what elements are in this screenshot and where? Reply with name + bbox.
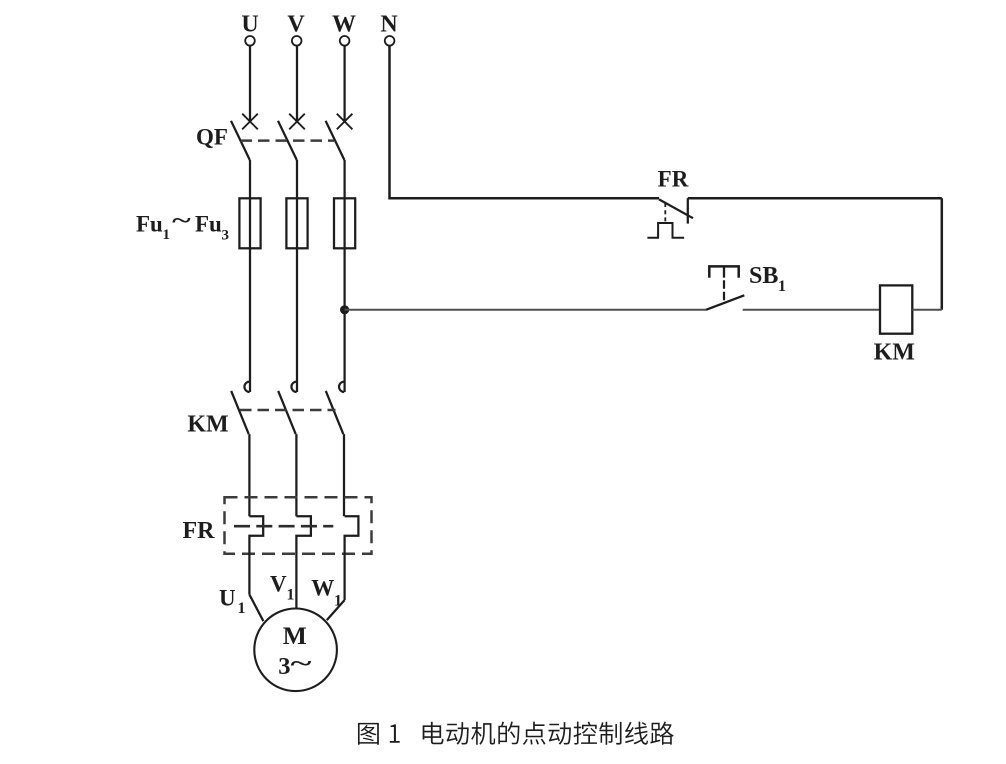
wire: KM pole 3 to FR heater 3 <box>343 434 345 516</box>
terminal U <box>245 36 255 46</box>
KM main contact pole 3 blade <box>326 391 344 434</box>
caption: 图 1 电动机的点动控制线路 <box>358 722 674 745</box>
KM main contact pole 2 terminal arc <box>291 382 296 392</box>
terminal W <box>340 36 350 46</box>
motor terminal label U1 <box>219 586 246 618</box>
label SB1 <box>749 263 786 295</box>
svg-text:~: ~ <box>291 651 312 676</box>
wire: KM pole 1 to FR heater 1 <box>248 434 250 516</box>
FR heater element 2 <box>296 516 311 608</box>
svg-text:KM: KM <box>874 340 915 366</box>
thermal relay FR heater box (dashed) <box>225 497 372 554</box>
KM main contact pole 1 terminal arc <box>244 382 249 392</box>
KM main contact pole 3 terminal arc <box>339 382 344 392</box>
wire: junction to SB1 <box>345 309 706 311</box>
fuse FU3 <box>334 198 355 248</box>
circuit breaker QF pole 2 blade <box>278 121 297 160</box>
svg-text:SB: SB <box>749 263 778 289</box>
svg-text:1: 1 <box>287 587 295 604</box>
svg-text:3: 3 <box>222 227 230 243</box>
fuse FU2 <box>286 198 307 248</box>
wire: QF pole 2 to KM contact pole 2 <box>296 160 298 392</box>
wire: U terminal to QF pole 1 <box>249 46 251 122</box>
svg-text:V: V <box>270 572 287 597</box>
svg-text:1: 1 <box>334 593 342 610</box>
SB1 actuator stem <box>723 266 725 277</box>
push button SB1 contact blade <box>706 295 744 310</box>
svg-text:U: U <box>241 12 258 38</box>
KM main contact pole 2 blade <box>278 391 296 434</box>
svg-text:FR: FR <box>183 518 216 544</box>
KM main contact pole 1 blade <box>231 391 249 434</box>
svg-text:M: M <box>283 621 307 650</box>
KM contacts linkage (dashed) <box>240 409 336 412</box>
FR contact fixed terminal stub <box>687 198 689 223</box>
motor label 3~ <box>278 651 311 680</box>
svg-text:QF: QF <box>196 125 228 150</box>
FR thermal actuator <box>647 223 684 238</box>
svg-text:W: W <box>332 12 356 38</box>
wire: heater 1 to motor (diagonal) <box>249 595 263 622</box>
svg-text:V: V <box>287 12 305 38</box>
svg-text:1: 1 <box>778 278 786 295</box>
node: junction on W phase <box>340 305 349 314</box>
svg-text:W: W <box>311 576 334 601</box>
svg-text:Fu: Fu <box>136 211 163 236</box>
svg-text:1: 1 <box>238 600 246 617</box>
motor terminal label W1 <box>311 576 342 610</box>
wire: SB1 to KM coil <box>743 309 880 311</box>
wire: right riser down to KM coil <box>941 198 944 310</box>
FR heater element 3 <box>345 516 359 600</box>
SB1 dashed link <box>723 280 725 304</box>
svg-text:3: 3 <box>278 653 290 680</box>
FR heater element 1 <box>249 516 263 594</box>
circuit breaker QF pole 2 contact cross <box>289 114 305 130</box>
circuit breaker QF pole 3 blade <box>326 121 345 160</box>
circuit breaker QF linkage (dashed) <box>241 139 335 142</box>
circuit breaker QF pole 3 contact cross <box>337 114 353 130</box>
circuit breaker QF pole 1 contact cross <box>242 114 258 130</box>
svg-text:1: 1 <box>163 227 171 243</box>
wire: W terminal to QF pole 3 <box>343 46 345 122</box>
FR heaters linkage (dashed) <box>234 525 333 528</box>
wire: KM pole 2 to FR heater 2 <box>295 434 297 516</box>
wire: QF pole 1 to KM contact pole 1 <box>249 160 251 392</box>
svg-text:Fu: Fu <box>195 211 222 236</box>
motor M circle <box>254 609 337 692</box>
wire: FR contact to right riser <box>688 197 942 200</box>
wire: N terminal down and right to FR contact <box>390 46 660 198</box>
wire: QF pole 3 to KM contact pole 3 <box>343 160 345 392</box>
terminal V <box>292 36 302 46</box>
terminal N <box>385 36 395 46</box>
svg-text:~: ~ <box>172 208 191 233</box>
circuit breaker QF pole 1 blade <box>231 121 250 160</box>
fuse FU1 <box>239 198 260 248</box>
FR contact dashed link <box>664 203 666 223</box>
svg-text:FR: FR <box>658 166 689 191</box>
contactor coil KM <box>880 285 912 333</box>
svg-text:U: U <box>219 586 236 611</box>
svg-text:N: N <box>380 12 398 38</box>
label FU1~FU3 <box>136 208 229 243</box>
motor terminal label V1 <box>270 572 295 604</box>
thermal relay FR NC contact blade <box>659 199 693 218</box>
wire: V terminal to QF pole 2 <box>296 46 298 122</box>
svg-text:KM: KM <box>187 412 228 438</box>
push button SB1 actuator <box>709 266 738 277</box>
wire: KM coil to right riser <box>912 309 942 311</box>
wire: heater 3 to motor (diagonal) <box>327 600 345 620</box>
